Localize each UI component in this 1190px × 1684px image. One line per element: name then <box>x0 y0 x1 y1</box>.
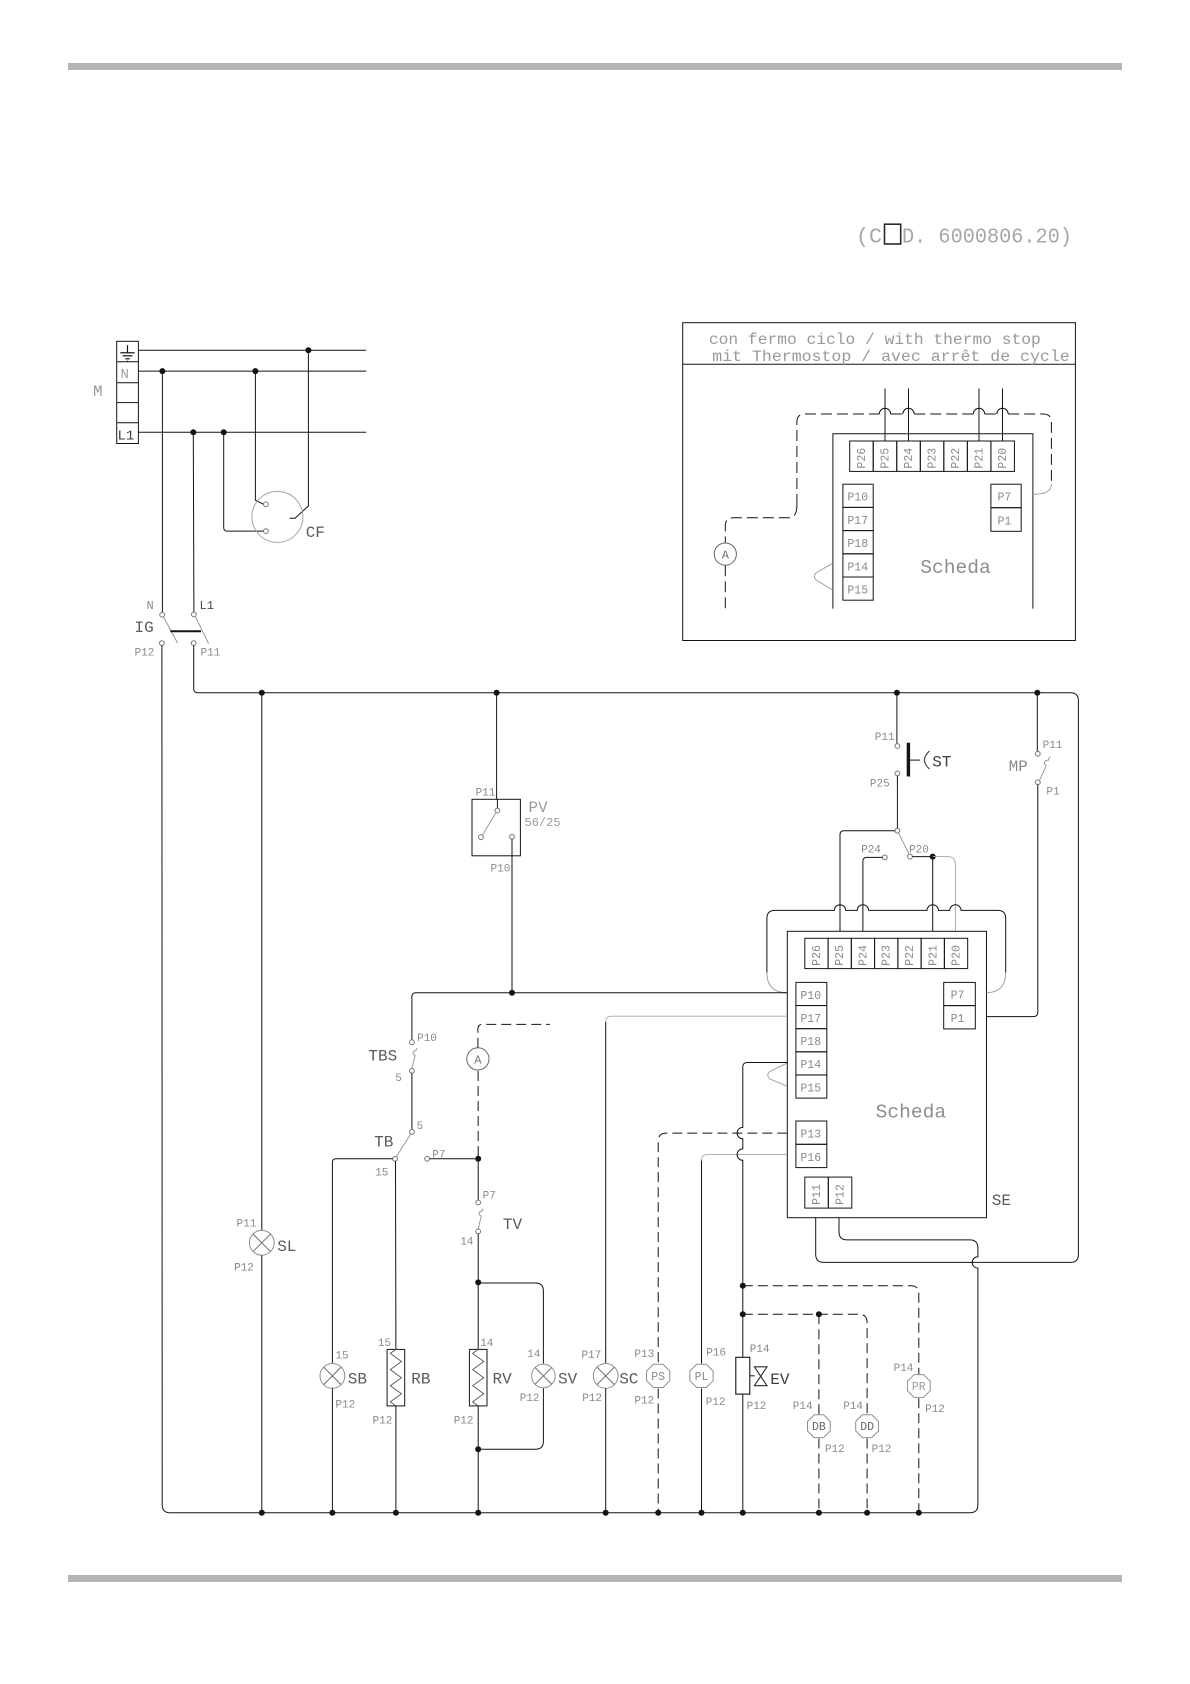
main left pin boxes P10 P17 P18 P14 P15 <box>796 982 827 1098</box>
inset wire stub to P20 <box>1002 389 1004 442</box>
bottom gray rule <box>68 1575 1122 1582</box>
bus junction MP <box>1034 690 1040 696</box>
svg-text:con fermo ciclo / with thermo: con fermo ciclo / with thermo stop <box>709 331 1041 349</box>
svg-text:P24: P24 <box>861 845 881 857</box>
svg-text:14: 14 <box>527 1349 541 1361</box>
svg-text:N: N <box>147 599 154 613</box>
wire junction down to connector P21 <box>932 857 934 939</box>
wire PV output down to P10 node <box>511 839 513 993</box>
svg-text:P20: P20 <box>997 448 1010 469</box>
svg-text:P21: P21 <box>974 448 987 469</box>
PV feed stub inside box <box>496 799 498 808</box>
svg-text:15: 15 <box>375 1167 388 1179</box>
PV output contact P10 <box>510 834 515 839</box>
bottom supply rail <box>170 1512 970 1514</box>
wire board P14 to EV vertical <box>737 1063 787 1358</box>
svg-text:P22: P22 <box>904 945 917 966</box>
inset wire stub to P25 <box>884 389 886 442</box>
bus junction ST <box>894 690 900 696</box>
switch TB top contact 5 <box>410 1130 415 1135</box>
PV bottom left contact <box>479 835 484 840</box>
svg-text:P1: P1 <box>998 516 1012 529</box>
svg-text:P20: P20 <box>909 845 929 857</box>
wire PV node to board P10 <box>412 993 787 1040</box>
sensor A circle <box>467 1048 489 1070</box>
wire board P16 to PL (light horizontal) <box>702 1155 788 1161</box>
MP bottom contact P1 <box>1035 780 1040 785</box>
svg-text:P23: P23 <box>881 945 894 966</box>
ST top contact P11 <box>895 744 900 749</box>
bottom rail junction PR <box>916 1510 922 1516</box>
svg-text:P10: P10 <box>417 1033 437 1045</box>
svg-text:P12: P12 <box>834 1184 847 1205</box>
svg-text:P12: P12 <box>872 1444 892 1456</box>
svg-text:P25: P25 <box>834 945 847 966</box>
junction L1 wire to IG <box>190 429 196 435</box>
svg-text:PV: PV <box>529 799 549 817</box>
svg-text:L1: L1 <box>118 428 135 444</box>
thermostat ST stem <box>910 759 920 761</box>
svg-text:MP: MP <box>1009 758 1028 776</box>
svg-text:P17: P17 <box>800 1013 821 1026</box>
svg-text:P14: P14 <box>800 1059 821 1072</box>
dashed wire node up to sensor A <box>477 1070 479 1156</box>
wire TBS to TB <box>411 1073 413 1129</box>
svg-text:P12: P12 <box>706 1397 726 1409</box>
svg-text:P18: P18 <box>847 538 868 551</box>
wire RV junction to bottom rail <box>477 1449 479 1513</box>
bottom rail junction PL <box>699 1510 705 1516</box>
right rail down to board P11 return <box>816 701 1079 1263</box>
signal lamp SB <box>320 1364 345 1389</box>
wire TB P7 to node <box>430 1158 479 1160</box>
main harness staple outline with wire hops <box>767 905 1006 973</box>
top gray rule <box>68 63 1122 70</box>
svg-text:P17: P17 <box>847 515 868 528</box>
heater resistor RV <box>469 1349 487 1406</box>
wire N down to CF pin <box>255 371 263 504</box>
switch TV top contact P7 <box>476 1200 481 1205</box>
svg-text:P15: P15 <box>800 1082 821 1095</box>
switch TBS top contact P10 <box>410 1040 415 1045</box>
svg-text:56/25: 56/25 <box>525 816 561 830</box>
svg-text:mit Thermostop / avec arrêt de: mit Thermostop / avec arrêt de cycle <box>712 348 1069 366</box>
svg-text:14: 14 <box>460 1236 474 1248</box>
svg-text:TV: TV <box>503 1216 523 1234</box>
inset board connector strip P26-P20 <box>850 441 1015 471</box>
svg-text:P16: P16 <box>800 1152 821 1165</box>
svg-text:15: 15 <box>378 1338 391 1350</box>
dashed wire down to DB <box>818 1314 820 1414</box>
svg-text:P20: P20 <box>951 945 964 966</box>
svg-text:(C: (C <box>856 227 882 250</box>
SV bypass loop bottom <box>478 1388 543 1449</box>
thermostat ST bar <box>907 743 910 777</box>
svg-text:D. 6000806.20): D. 6000806.20) <box>902 227 1072 250</box>
svg-text:P11: P11 <box>237 1218 257 1230</box>
wire P20 contact to junction <box>912 856 932 858</box>
inset dashed harness right arc into board <box>1033 484 1052 494</box>
bottom rail junction SL <box>259 1510 265 1516</box>
wire IG P11 to top bus <box>194 646 198 693</box>
svg-text:P15: P15 <box>847 585 868 598</box>
switch IG blade N <box>164 617 178 643</box>
svg-text:P16: P16 <box>706 1348 726 1360</box>
heater resistor RB <box>387 1349 405 1406</box>
dispenser DD <box>856 1415 879 1438</box>
wire RB to bottom rail <box>395 1406 397 1513</box>
svg-text:P7: P7 <box>998 492 1012 505</box>
switch TV bottom contact 14 <box>476 1229 481 1234</box>
signal lamp SL branch wire bottom <box>261 1255 263 1513</box>
wire RV to lower junction <box>477 1406 479 1449</box>
svg-text:P23: P23 <box>927 448 940 469</box>
svg-text:P11: P11 <box>811 1184 824 1205</box>
svg-text:SE: SE <box>992 1192 1011 1210</box>
document code text (COD. 6000806.20) <box>856 224 1072 249</box>
svg-text:15: 15 <box>335 1350 348 1362</box>
ST bottom contact P25 <box>895 771 900 776</box>
switch IG pole L1 bottom contact <box>191 641 196 646</box>
svg-text:P11: P11 <box>875 732 895 744</box>
svg-text:PR: PR <box>912 1381 926 1394</box>
SV bypass loop top <box>478 1283 543 1364</box>
main right pin boxes P7 P1 <box>944 982 976 1029</box>
switch IG blade L1 <box>195 617 208 644</box>
svg-text:P13: P13 <box>800 1129 821 1142</box>
inset dashed stub below sensor A <box>724 565 726 612</box>
svg-text:SV: SV <box>558 1371 578 1389</box>
junction P10 node <box>509 990 515 996</box>
staple left arc into board <box>767 973 787 993</box>
svg-text:P1: P1 <box>1046 787 1060 799</box>
switch TBS bottom contact 5 <box>410 1068 415 1073</box>
svg-text:A: A <box>474 1053 482 1067</box>
MP top contact P11 <box>1035 751 1040 756</box>
junction TV/RV/SV <box>475 1279 481 1285</box>
svg-text:P12: P12 <box>825 1444 845 1456</box>
wire TB 15 down to RB <box>395 1161 397 1349</box>
bottom rail junction SB <box>329 1510 335 1516</box>
inset sensor A <box>714 543 736 565</box>
junction N wire to IG <box>159 368 165 374</box>
svg-text:M: M <box>93 383 103 401</box>
svg-text:P10: P10 <box>491 864 511 876</box>
main connector strip P26-P20 <box>805 938 968 968</box>
svg-text:P12: P12 <box>747 1401 767 1413</box>
svg-text:P21: P21 <box>927 945 940 966</box>
svg-text:Scheda: Scheda <box>876 1102 947 1124</box>
capacitor-filter CF body <box>252 491 303 542</box>
svg-text:P12: P12 <box>373 1416 393 1428</box>
bottom rail junction DD <box>864 1510 870 1516</box>
thermostat ST bulb arc <box>925 751 930 769</box>
changeover contact P20 <box>908 854 913 859</box>
svg-text:P26: P26 <box>811 945 824 966</box>
wire N to switch IG <box>161 371 163 612</box>
svg-text:SL: SL <box>277 1238 296 1256</box>
main board pointer wedge <box>768 1063 787 1086</box>
CF pin 2 <box>264 529 269 534</box>
svg-text:SC: SC <box>619 1371 638 1389</box>
wire bus to PV <box>496 693 498 800</box>
inset dashed harness left branch to sensor A <box>725 505 797 543</box>
svg-text:P17: P17 <box>581 1350 601 1362</box>
wire L1 down and right to CF pin <box>224 432 264 531</box>
top supply bus <box>198 692 1071 694</box>
wire pivot to connector P25 <box>840 831 895 939</box>
switch MP blade <box>1040 757 1050 780</box>
junction EV to PR dashed row <box>740 1283 746 1289</box>
svg-text:P24: P24 <box>903 448 916 469</box>
svg-text:P14: P14 <box>750 1344 770 1356</box>
dashed wire PS to bottom rail <box>657 1389 659 1513</box>
signal lamp SC <box>593 1364 618 1389</box>
changeover blade to P20 <box>899 833 910 855</box>
svg-text:P11: P11 <box>1043 740 1063 752</box>
bus junction SL <box>259 690 265 696</box>
bottom rail junction RB <box>393 1510 399 1516</box>
wire TB 15 branch to SB <box>332 1159 392 1364</box>
inset frame box <box>683 323 1076 641</box>
wire junction to RV <box>477 1282 479 1349</box>
inset board Scheda outline <box>833 434 1033 609</box>
dashed row to PR <box>743 1286 919 1374</box>
svg-text:P14: P14 <box>793 1401 813 1413</box>
junction DB on dashed row <box>816 1311 822 1317</box>
svg-text:PL: PL <box>695 1371 709 1384</box>
svg-text:P7: P7 <box>432 1149 445 1161</box>
switch IG pole L1 top contact <box>192 612 197 617</box>
signal lamp SL branch wire top <box>261 693 263 1231</box>
dashed wire PR to bottom rail <box>918 1398 920 1513</box>
inset board pointer wedge <box>814 563 833 590</box>
svg-text:P14: P14 <box>843 1401 863 1413</box>
PV top contact P11 <box>495 808 500 813</box>
neutral wire N from terminal block <box>138 370 366 372</box>
wire MP to board P1 <box>975 785 1038 1017</box>
switch TB contact P7 <box>425 1156 430 1161</box>
svg-text:P7: P7 <box>951 990 965 1003</box>
svg-text:P11: P11 <box>476 788 496 800</box>
pressure switch motor PS <box>647 1364 670 1387</box>
wire PL vertical <box>701 1161 703 1364</box>
wire board P17 to SC (light horizontal) <box>606 1016 788 1022</box>
svg-text:P13: P13 <box>634 1349 654 1361</box>
earth wire from terminal block <box>138 349 366 351</box>
bus corner to right rail <box>1070 693 1078 701</box>
wire SB to bottom rail <box>331 1388 333 1513</box>
svg-text:SB: SB <box>348 1371 367 1389</box>
svg-text:RV: RV <box>493 1371 513 1389</box>
bottom rail junction RV <box>475 1510 481 1516</box>
svg-text:DB: DB <box>812 1421 826 1434</box>
svg-text:ST: ST <box>932 754 951 772</box>
svg-text:P25: P25 <box>879 448 892 469</box>
dashed wire DD to bottom rail <box>866 1439 868 1513</box>
svg-text:P18: P18 <box>800 1036 821 1049</box>
svg-text:EV: EV <box>770 1371 790 1389</box>
svg-text:P12: P12 <box>335 1400 355 1412</box>
svg-text:P1: P1 <box>951 1013 965 1026</box>
switch TB blade <box>396 1134 410 1157</box>
switch IG gang tie bar <box>170 630 201 632</box>
dashed wire DB to bottom rail <box>818 1439 820 1513</box>
CF pin 1 <box>264 502 269 507</box>
svg-text:TBS: TBS <box>368 1048 397 1066</box>
bottom rail junction PS <box>655 1510 661 1516</box>
wire bus to ST <box>896 693 898 744</box>
switch IG pole N top contact <box>160 612 165 617</box>
bus junction PV <box>494 690 500 696</box>
wash pump motor PL <box>690 1364 713 1387</box>
wire junction to connector P20 (light) <box>933 857 956 939</box>
wire SC to bottom rail <box>605 1388 607 1513</box>
svg-text:RB: RB <box>411 1371 430 1389</box>
dispenser DB <box>808 1415 831 1438</box>
svg-text:P7: P7 <box>483 1190 496 1202</box>
solenoid valve EV body <box>736 1357 750 1394</box>
wire earth down into CF <box>290 350 309 518</box>
dashed row to DB and DD <box>743 1314 867 1414</box>
signal lamp SL <box>249 1230 274 1255</box>
inset wire stub to P21 <box>978 389 980 442</box>
svg-text:P12: P12 <box>234 1263 254 1275</box>
svg-text:P26: P26 <box>856 448 869 469</box>
svg-text:PS: PS <box>651 1371 665 1384</box>
pressure switch PV box <box>472 799 520 856</box>
inset right pin boxes P7 P1 <box>991 484 1021 531</box>
wire board P12 to bottom rail with hop <box>839 1218 978 1513</box>
svg-text:CF: CF <box>306 524 325 542</box>
junction P7 node <box>475 1156 481 1162</box>
wire L1 to switch IG <box>192 432 195 612</box>
inset title separator <box>683 363 1076 365</box>
junction RV/SV bottom <box>475 1446 481 1452</box>
svg-text:5: 5 <box>417 1121 424 1133</box>
svg-text:P12: P12 <box>520 1393 540 1405</box>
earth symbol in terminal block <box>120 345 134 361</box>
junction N wire to CF <box>252 368 258 374</box>
main bottom connector P11 P12 <box>805 1177 852 1208</box>
bottom rail junction DB <box>816 1510 822 1516</box>
svg-text:P10: P10 <box>800 990 821 1003</box>
inset left pin boxes P10 P17 P18 P14 P15 <box>843 484 873 600</box>
changeover pivot contact <box>895 828 900 833</box>
junction EV to DB DD dashed row <box>740 1311 746 1317</box>
left rail P12 from IG to bottom rail <box>162 646 170 1513</box>
PV blade <box>483 813 496 835</box>
svg-text:IG: IG <box>135 619 154 637</box>
inset dashed harness outline with wire hops <box>797 414 879 505</box>
switch TBS blade <box>412 1048 417 1069</box>
svg-text:P14: P14 <box>894 1363 914 1375</box>
signal lamp SV <box>532 1364 556 1388</box>
staple right arc into board <box>987 973 1006 993</box>
svg-text:P12: P12 <box>135 648 155 660</box>
switch TB contact 15 <box>393 1156 398 1161</box>
junction P20/P21 <box>930 854 936 860</box>
drain pump motor PR <box>907 1375 930 1398</box>
mains terminal block M <box>117 341 139 443</box>
svg-text:P12: P12 <box>634 1396 654 1408</box>
switch IG pole N bottom contact <box>160 641 165 646</box>
svg-text:N: N <box>121 367 129 383</box>
wire ST to changeover pivot <box>896 776 898 829</box>
svg-text:P11: P11 <box>201 648 221 660</box>
wire SC vertical <box>605 1022 607 1364</box>
changeover contact P24 <box>882 855 887 860</box>
svg-text:P12: P12 <box>925 1404 945 1416</box>
svg-text:TB: TB <box>374 1134 393 1152</box>
junction L1 wire to CF <box>221 429 227 435</box>
solenoid valve EV symbol <box>750 1367 767 1386</box>
inset wire stub to P24 <box>908 389 910 442</box>
main pin boxes P13 P16 <box>796 1121 827 1168</box>
svg-text:P24: P24 <box>857 945 870 966</box>
wire P24 contact to connector P24 <box>863 857 883 938</box>
svg-text:Scheda: Scheda <box>920 557 991 579</box>
main board Scheda outline <box>787 931 986 1217</box>
wire bus to MP <box>1036 693 1038 752</box>
svg-text:P14: P14 <box>847 561 868 574</box>
wire PL to bottom rail <box>701 1389 703 1513</box>
svg-text:L1: L1 <box>200 599 214 613</box>
wire EV to bottom rail <box>742 1394 744 1513</box>
line wire L1 from terminal block <box>138 431 366 433</box>
svg-text:P10: P10 <box>847 492 868 505</box>
bottom rail junction SC <box>603 1510 609 1516</box>
switch TV blade <box>478 1209 483 1230</box>
svg-text:P12: P12 <box>454 1416 474 1428</box>
bottom rail junction EV <box>740 1510 746 1516</box>
wire TV to RV junction <box>477 1234 479 1283</box>
svg-text:5: 5 <box>395 1073 402 1085</box>
svg-text:P12: P12 <box>582 1393 602 1405</box>
dashed wire above sensor A <box>478 1024 550 1047</box>
svg-text:P22: P22 <box>950 448 963 469</box>
svg-text:DD: DD <box>860 1421 874 1434</box>
svg-text:14: 14 <box>480 1338 494 1350</box>
svg-text:P25: P25 <box>870 779 890 791</box>
junction on earth wire <box>305 347 311 353</box>
svg-text:A: A <box>722 549 730 563</box>
dashed wire board P13 to PS <box>658 1133 787 1364</box>
wire node to TV <box>477 1159 479 1200</box>
